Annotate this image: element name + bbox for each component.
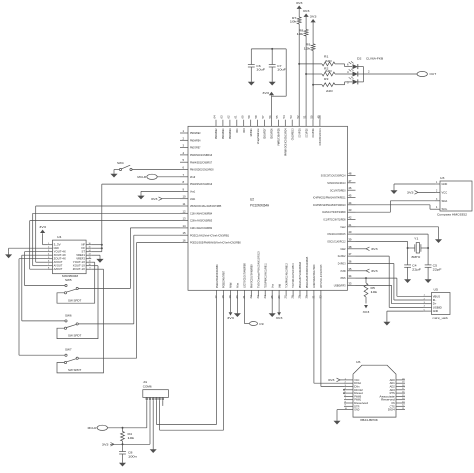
svg-text:38: 38 (348, 245, 352, 249)
svg-text:3V3: 3V3 (371, 247, 378, 251)
svg-text:SW4: SW4 (117, 161, 124, 165)
svg-text:28: 28 (291, 295, 295, 299)
svg-text:35: 35 (348, 267, 352, 271)
svg-text:PIC32MX664H: PIC32MX664H (250, 204, 270, 208)
svg-text:16: 16 (88, 243, 90, 245)
svg-text:31: 31 (312, 295, 316, 299)
svg-text:VBUS: VBUS (340, 276, 345, 280)
svg-text:62: 62 (227, 115, 231, 119)
svg-text:20: 20 (235, 295, 239, 299)
svg-text:MCLR: MCLR (88, 426, 98, 430)
svg-text:SDA: SDA (442, 199, 448, 203)
svg-text:PMD1/RE1: PMD1/RE1 (221, 128, 225, 139)
svg-text:USBID/RF3: USBID/RF3 (334, 284, 346, 288)
svg-text:SW7: SW7 (65, 348, 72, 352)
svg-text:OC2/RD1: OC2/RD1 (311, 128, 315, 137)
svg-text:21: 21 (242, 295, 246, 299)
svg-text:43: 43 (348, 208, 352, 212)
svg-text:IC6/CN19/RD13: IC6/CN19/RD13 (318, 128, 322, 145)
svg-text:PGED1/SS5/PMA6/AN0/Vref+/CVref: PGED1/SS5/PMA6/AN0/Vref+/CVref+/CN2/RB0 (190, 241, 241, 245)
svg-text:13: 13 (88, 254, 90, 256)
svg-text:3V3: 3V3 (39, 225, 46, 229)
svg-text:DIO4: DIO4 (388, 408, 395, 412)
svg-text:12: 12 (88, 257, 90, 259)
svg-text:OSC2/CLKO/RC15: OSC2/CLKO/RC15 (327, 232, 345, 236)
svg-text:RF0: RF0 (242, 128, 246, 132)
svg-text:32: 32 (319, 295, 323, 299)
svg-text:COM6: COM6 (143, 384, 152, 388)
svg-text:40: 40 (348, 230, 352, 234)
svg-text:C2IN+/AN3/CN5/RB3: C2IN+/AN3/CN5/RB3 (190, 219, 212, 223)
svg-text:220: 220 (326, 89, 333, 93)
svg-text:57: 57 (261, 115, 265, 119)
svg-text:14: 14 (88, 250, 90, 252)
svg-text:PMA2/SS2/CN11/RG9: PMA2/SS2/CN11/RG9 (190, 182, 212, 186)
svg-text:Compass HMC6352: Compass HMC6352 (437, 213, 467, 217)
svg-text:220: 220 (325, 69, 332, 73)
svg-text:TDI/PMA10/AN13/RB13: TDI/PMA10/AN13/RB13 (291, 263, 295, 288)
svg-text:MCLR: MCLR (137, 175, 147, 179)
svg-text:IC4/PMCS1/PMA14/INT4/RD11: IC4/PMCS1/PMA14/INT4/RD11 (313, 196, 346, 200)
svg-text:RF1: RF1 (235, 128, 239, 132)
svg-text:D-/RG3: D-/RG3 (338, 262, 346, 266)
svg-text:11: 11 (89, 261, 91, 263)
svg-text:100n: 100n (128, 455, 137, 459)
svg-text:22: 22 (249, 295, 253, 299)
svg-text:37: 37 (348, 252, 352, 256)
svg-text:6: 6 (183, 166, 185, 170)
svg-text:3V3: 3V3 (303, 9, 310, 13)
svg-text:3V3: 3V3 (328, 378, 335, 382)
svg-text:Vdd1: Vdd1 (190, 197, 195, 201)
svg-text:PMD7/RE7: PMD7/RE7 (190, 146, 201, 150)
svg-text:U6: U6 (356, 360, 361, 364)
svg-text:4: 4 (183, 151, 185, 155)
svg-text:ENVREG: ENVREG (249, 128, 253, 136)
svg-text:22pF: 22pF (412, 267, 421, 271)
svg-text:Y1: Y1 (414, 237, 419, 241)
svg-text:16: 16 (183, 239, 187, 243)
svg-text:10uF: 10uF (256, 68, 265, 72)
svg-text:10: 10 (183, 195, 187, 199)
svg-text:10k: 10k (128, 436, 135, 440)
svg-text:10k: 10k (304, 46, 311, 50)
svg-text:Vss2: Vss2 (340, 225, 345, 229)
svg-text:1: 1 (183, 129, 185, 133)
svg-text:12: 12 (183, 209, 187, 213)
svg-text:39: 39 (348, 238, 352, 242)
svg-text:25: 25 (270, 295, 274, 299)
svg-text:VUSB: VUSB (340, 269, 345, 273)
svg-text:SW SPDT: SW SPDT (68, 368, 81, 372)
svg-text:15: 15 (183, 231, 187, 235)
svg-text:PGED2/AN7/RB7: PGED2/AN7/RB7 (222, 271, 226, 288)
svg-text:PMA5/SCK2/CN8/RG6: PMA5/SCK2/CN8/RG6 (190, 153, 212, 157)
svg-text:Vdd: Vdd (277, 284, 281, 288)
svg-text:11: 11 (183, 202, 186, 206)
svg-text:13: 13 (183, 217, 187, 221)
svg-text:U2: U2 (250, 198, 254, 202)
svg-text:CN15/RD6: CN15/RD6 (270, 128, 274, 139)
svg-text:3V3: 3V3 (227, 316, 234, 320)
svg-text:6: 6 (347, 62, 349, 66)
svg-text:U3: U3 (440, 176, 445, 180)
svg-text:D+/RG2: D+/RG2 (338, 254, 346, 258)
svg-text:19: 19 (228, 295, 232, 299)
svg-text:PMD4/RE4: PMD4/RE4 (190, 138, 201, 142)
svg-text:10k: 10k (371, 290, 378, 294)
svg-text:OC3/RD2: OC3/RD2 (304, 128, 308, 137)
svg-text:AVdd: AVdd (229, 283, 233, 288)
svg-text:59: 59 (247, 115, 251, 119)
svg-text:IC3/PMCS2/PMA15/INT3/RD10: IC3/PMCS2/PMA15/INT3/RD10 (313, 203, 346, 207)
svg-text:D2: D2 (357, 56, 362, 60)
svg-text:22pF: 22pF (433, 267, 442, 271)
svg-text:3V3: 3V3 (276, 316, 283, 320)
svg-text:3V3: 3V3 (371, 269, 378, 273)
svg-text:SW SPDT: SW SPDT (68, 334, 81, 338)
svg-text:3V3: 3V3 (363, 310, 370, 314)
svg-text:55: 55 (275, 115, 279, 119)
svg-text:VCC: VCC (442, 190, 448, 194)
svg-text:TDO/PMA12/AN11/RB11: TDO/PMA12/AN11/RB11 (263, 263, 267, 288)
svg-text:41: 41 (348, 223, 352, 227)
svg-text:3: 3 (347, 81, 349, 85)
svg-text:Vss1: Vss1 (190, 190, 195, 194)
svg-text:U5: U5 (434, 288, 439, 292)
svg-text:3V3: 3V3 (262, 91, 269, 95)
svg-text:48: 48 (348, 172, 352, 176)
svg-text:PMD3/RE3: PMD3/RE3 (190, 131, 201, 135)
svg-text:IC1/RTCC/INT1/RD8: IC1/RTCC/INT1/RD8 (323, 218, 345, 222)
svg-text:15: 15 (88, 247, 90, 249)
svg-text:Vdd2: Vdd2 (340, 247, 345, 251)
svg-text:58: 58 (254, 115, 258, 119)
svg-text:54: 54 (282, 115, 286, 119)
svg-text:CLV6A-FKB: CLV6A-FKB (366, 56, 383, 60)
svg-text:C1IN-/AN4/CN6/RB4: C1IN-/AN4/CN6/RB4 (190, 211, 212, 215)
svg-text:30: 30 (305, 295, 309, 299)
svg-text:PMD0/RE0: PMD0/RE0 (228, 128, 232, 139)
svg-text:9: 9 (183, 187, 185, 191)
svg-text:SOSCO/T1CK/CN0/RC14: SOSCO/T1CK/CN0/RC14 (321, 174, 346, 178)
svg-text:34: 34 (348, 274, 352, 278)
svg-text:OC4/RD3: OC4/RD3 (297, 128, 301, 137)
svg-text:SW5: SW5 (65, 278, 72, 282)
svg-text:CN19/RD13: CN19/RD13 (290, 128, 294, 140)
svg-text:63: 63 (220, 115, 224, 119)
svg-text:Vss: Vss (270, 284, 274, 288)
svg-text:17: 17 (214, 295, 218, 299)
svg-text:3V3: 3V3 (310, 15, 317, 19)
svg-text:8: 8 (183, 180, 185, 184)
svg-text:33: 33 (348, 281, 352, 285)
svg-text:U2TX/SCL2/CN18/RF5: U2TX/SCL2/CN18/RF5 (319, 264, 323, 288)
svg-text:U4: U4 (57, 235, 62, 239)
svg-text:53: 53 (289, 115, 293, 119)
svg-text:SW SPDT: SW SPDT (68, 298, 81, 302)
svg-text:MCLR: MCLR (190, 175, 196, 179)
svg-text:3V3: 3V3 (407, 191, 414, 195)
svg-text:3V3: 3V3 (151, 197, 158, 201)
svg-text:GND: GND (433, 309, 438, 313)
svg-text:PMD2/RE2: PMD2/RE2 (214, 128, 218, 139)
svg-text:PMRD/CN14/RD5: PMRD/CN14/RD5 (277, 128, 281, 145)
svg-text:U2CTS/C1OUT/AN8/RB8: U2CTS/C1OUT/AN8/RB8 (243, 263, 247, 288)
svg-text:U2RX/SDA2/CN17/RF4: U2RX/SDA2/CN17/RF4 (312, 264, 316, 288)
svg-text:TCK/PMA11/AN12/RB12: TCK/PMA11/AN12/RB12 (284, 263, 288, 288)
svg-text:27: 27 (284, 295, 288, 299)
svg-text:PMA0/AN15/OCFB/CN12/RB15: PMA0/AN15/OCFB/CN12/RB15 (305, 257, 309, 288)
svg-text:42: 42 (348, 216, 352, 220)
svg-text:18: 18 (221, 295, 225, 299)
svg-text:R3: R3 (324, 77, 329, 81)
svg-text:OUT: OUT (430, 72, 437, 76)
svg-text:36: 36 (348, 260, 352, 264)
svg-text:44: 44 (348, 201, 352, 205)
svg-text:mini_usb: mini_usb (433, 316, 449, 320)
svg-text:64: 64 (213, 115, 217, 119)
svg-text:10uF: 10uF (277, 68, 286, 72)
svg-text:60: 60 (240, 115, 244, 119)
svg-text:PMWR/OC5/IC5/CN13/RD4: PMWR/OC5/IC5/CN13/RD4 (284, 128, 288, 156)
svg-text:8MHz: 8MHz (412, 255, 421, 259)
svg-text:3V3: 3V3 (296, 1, 303, 5)
svg-text:3V3: 3V3 (102, 443, 109, 447)
svg-text:10k: 10k (297, 32, 304, 36)
svg-text:OSC1/CLKI/RC12: OSC1/CLKI/RC12 (327, 240, 345, 244)
svg-text:PMA7/C2OUT/AN9/RB9: PMA7/C2OUT/AN9/RB9 (250, 264, 254, 288)
svg-text:45: 45 (348, 194, 352, 198)
svg-text:C9: C9 (259, 322, 264, 326)
svg-text:9: 9 (90, 268, 91, 270)
svg-text:OC1/INT0/RD0: OC1/INT0/RD0 (330, 188, 346, 192)
svg-text:GND: GND (442, 182, 448, 186)
svg-text:5: 5 (183, 158, 185, 162)
svg-text:2: 2 (368, 70, 370, 74)
svg-text:IC2/U1CTS/INT2/RD9: IC2/U1CTS/INT2/RD9 (322, 210, 346, 214)
svg-text:PGEC2/AN6/OCFA/RB6: PGEC2/AN6/OCFA/RB6 (215, 264, 219, 288)
svg-text:SOSCI/CN1/RC13: SOSCI/CN1/RC13 (327, 181, 345, 185)
svg-text:PMA4/SDI2/CN9/RG7: PMA4/SDI2/CN9/RG7 (190, 160, 212, 164)
svg-text:7: 7 (183, 173, 185, 177)
svg-text:10k: 10k (290, 20, 297, 24)
svg-text:CN16/RD7: CN16/RD7 (263, 128, 267, 139)
svg-text:29: 29 (298, 295, 302, 299)
svg-text:PMA3/SDO2/CN10/RG8: PMA3/SDO2/CN10/RG8 (190, 168, 214, 172)
svg-text:2: 2 (183, 136, 185, 140)
svg-text:24: 24 (263, 295, 267, 299)
svg-text:220: 220 (325, 59, 332, 63)
svg-text:PGEC1/AN1/Vref-/CVref-/CN3/RB1: PGEC1/AN1/Vref-/CVref-/CN3/RB1 (190, 233, 229, 237)
svg-text:GND: GND (354, 408, 359, 412)
svg-text:ZOUT-1X: ZOUT-1X (73, 267, 85, 271)
svg-text:VBUSON/C1IN+/AN5/CN7/RB5: VBUSON/C1IN+/AN5/CN7/RB5 (190, 204, 221, 208)
svg-text:23: 23 (256, 295, 260, 299)
svg-text:10: 10 (88, 264, 90, 266)
svg-text:46: 46 (348, 186, 352, 190)
svg-text:3: 3 (183, 144, 185, 148)
svg-text:SW6: SW6 (65, 313, 72, 317)
svg-text:4: 4 (347, 70, 349, 74)
svg-text:47: 47 (348, 179, 352, 183)
svg-text:AVss: AVss (236, 282, 240, 288)
svg-text:14: 14 (183, 224, 187, 228)
svg-text:61: 61 (233, 115, 237, 119)
svg-text:C2IN-/AN2/CN4/RB2: C2IN-/AN2/CN4/RB2 (190, 226, 212, 230)
svg-text:PMA1/U2RTS/AN14/RB14: PMA1/U2RTS/AN14/RB14 (298, 262, 302, 288)
svg-text:AZOUT: AZOUT (54, 267, 63, 271)
svg-text:Vcap/Vddcore: Vcap/Vddcore (256, 128, 260, 144)
svg-text:SCL: SCL (442, 207, 448, 211)
svg-text:XB24-BPDK: XB24-BPDK (360, 418, 378, 422)
svg-text:TMS/CVrefout/PMA13/AN10/RB10: TMS/CVrefout/PMA13/AN10/RB10 (257, 251, 261, 288)
